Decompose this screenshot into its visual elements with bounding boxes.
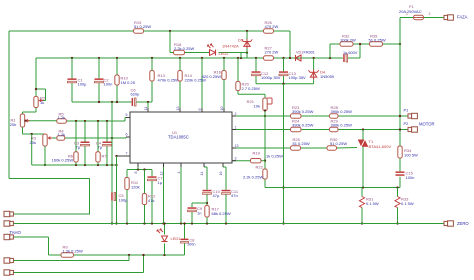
svg-text:390k 0.25W: 390k 0.25W: [292, 123, 314, 128]
resistor R19: [251, 151, 284, 163]
wire taho drop: [13, 237, 49, 255]
wire IC bottom hub y169.5: [127, 168, 152, 170]
resistor R23: [291, 105, 314, 118]
wire pin4 drop: [180, 163, 182, 224]
wire R12 leads: [144, 170, 146, 224]
svg-text:470 2W: 470 2W: [265, 24, 279, 29]
resistor R13: [150, 71, 179, 83]
wire R1 bottom to R3: [23, 127, 46, 135]
svg-text:TDA1085C: TDA1085C: [168, 135, 189, 140]
svg-text:20k: 20k: [10, 122, 16, 127]
wire R20 branch x238: [238, 58, 265, 98]
resistor R4: [57, 129, 65, 141]
capacitor C7: [148, 176, 164, 186]
svg-text:16: 16: [219, 172, 223, 176]
wire C7 leads: [151, 170, 153, 224]
svg-text:1: 1: [406, 12, 408, 16]
svg-text:100n: 100n: [406, 175, 415, 180]
svg-text:820 0.25W: 820 0.25W: [202, 74, 222, 79]
svg-text:7µ: 7µ: [75, 145, 80, 150]
wire gnd-a bus y102: [72, 101, 152, 103]
wire pin14 to C10: [204, 163, 208, 206]
wire terminal4 line: [13, 255, 129, 261]
wire analog gnd y165: [32, 164, 118, 166]
svg-text:TAHO: TAHO: [10, 230, 22, 235]
svg-text:LED2: LED2: [219, 51, 230, 56]
resistor R34: [398, 146, 418, 158]
wire R10 branch: [116, 58, 118, 102]
potentiometer R1: [10, 114, 30, 127]
resistor R26: [264, 20, 279, 33]
wire mains riser x400: [399, 18, 401, 172]
wire C5 left riser x112: [111, 102, 113, 225]
wire supply y44 line: [330, 43, 401, 58]
svg-text:51 0.25W: 51 0.25W: [369, 38, 386, 43]
label MOTOR: [419, 122, 435, 127]
svg-text:47k: 47k: [148, 198, 154, 203]
svg-text:5: 5: [126, 113, 128, 117]
terminal P1: [404, 108, 418, 119]
wire pin2 line y116: [232, 115, 408, 117]
resistor R30: [327, 137, 347, 150]
svg-text:6: 6: [126, 133, 128, 137]
wire C12 branch x256: [255, 58, 257, 84]
svg-text:470k 0.25W: 470k 0.25W: [158, 78, 180, 83]
svg-text:390k 0.25W: 390k 0.25W: [292, 109, 314, 114]
svg-text:11: 11: [144, 107, 148, 111]
capacitor C10: [203, 189, 221, 198]
wire pin11 stub: [147, 102, 149, 112]
svg-text:51 0.25W: 51 0.25W: [293, 141, 310, 146]
svg-text:7µ: 7µ: [97, 145, 102, 150]
svg-text:ZERO: ZERO: [457, 221, 469, 226]
wire R11 leads: [126, 170, 128, 224]
potentiometer R3: [30, 134, 53, 146]
wire R16 branch x224: [223, 58, 225, 112]
wire C5 right riser x116.5: [115, 156, 117, 225]
wire pin8 stub: [137, 163, 139, 170]
wire R22 drop: [264, 161, 266, 188]
wire supply gnd y83.8: [256, 83, 314, 85]
wire R1 wiper line y121: [26, 118, 131, 123]
wire R21 to pin2 net: [264, 111, 266, 162]
svg-text:VD1: VD1: [296, 51, 303, 55]
resistor R17: [205, 206, 231, 218]
svg-text:47µ: 47µ: [213, 193, 220, 198]
capacitor C8: [181, 239, 196, 247]
wire D4 branch: [313, 58, 315, 84]
capacitor C1: [68, 78, 88, 87]
capacitor C6: [131, 88, 141, 107]
terminal X1-4: [4, 258, 13, 263]
wire R2 bottom jog: [23, 108, 37, 115]
wire R17 lead: [206, 217, 208, 224]
resistor R32: [340, 34, 356, 47]
resistor R6: [52, 152, 79, 163]
svg-text:160k 0.25W: 160k 0.25W: [52, 158, 74, 163]
wire C9 hub y203: [192, 202, 207, 204]
capacitor C14: [343, 51, 358, 62]
svg-text:390k 0.25W: 390k 0.25W: [331, 109, 353, 114]
svg-text:0.1 5W: 0.1 5W: [401, 201, 414, 206]
svg-text:20k: 20k: [30, 140, 36, 145]
svg-text:MOTOR: MOTOR: [419, 122, 435, 127]
svg-text:100µ 35V: 100µ 35V: [289, 75, 307, 80]
terminal X1-2: [4, 221, 13, 226]
wire gnd riser x283: [282, 84, 284, 225]
svg-text:FAZA: FAZA: [457, 15, 468, 20]
svg-text:BTA41-600V: BTA41-600V: [369, 144, 392, 149]
wire R2 wiper loop: [35, 88, 46, 101]
svg-text:4: 4: [177, 172, 181, 174]
resistor R22: [243, 165, 267, 180]
svg-text:1.2k 0.25W: 1.2k 0.25W: [63, 249, 83, 254]
wire C4 branch: [106, 121, 108, 165]
wire D3 vertical: [246, 31, 248, 58]
svg-text:1N5059: 1N5059: [320, 74, 335, 79]
wire left vertical x9: [8, 31, 10, 179]
svg-text:1n: 1n: [197, 211, 201, 216]
svg-text:47n: 47n: [231, 193, 238, 198]
svg-text:100n: 100n: [187, 243, 195, 247]
potentiometer R21: [247, 98, 272, 112]
terminal FAZA: [444, 15, 468, 21]
resistor R35: [369, 34, 386, 47]
wire R18 chain: [170, 31, 248, 58]
resistor R14: [178, 71, 206, 83]
U1 pin numbers: [126, 107, 239, 176]
wire R7 branch: [97, 121, 99, 165]
wire pin9 riser x202: [201, 58, 203, 112]
wire R31 leads: [361, 188, 363, 225]
capacitor C13: [279, 71, 306, 80]
wire R14 branch x180: [179, 58, 181, 112]
svg-text:270 2W: 270 2W: [265, 50, 279, 55]
wire pin1 line y129.5: [232, 128, 408, 130]
capacitor C9: [188, 206, 203, 215]
wire pin16 to C11: [223, 163, 226, 224]
wire pin6 line y138: [65, 137, 130, 139]
resistor R24: [291, 119, 314, 132]
svg-text:13: 13: [235, 144, 239, 148]
triac T1: [358, 139, 391, 149]
svg-text:1µ 600V: 1µ 600V: [343, 51, 358, 55]
svg-text:1.2k: 1.2k: [58, 115, 66, 120]
svg-text:P2: P2: [404, 121, 410, 126]
svg-text:68k 0.25W: 68k 0.25W: [212, 211, 231, 216]
svg-text:100µ: 100µ: [78, 82, 88, 87]
svg-text:2: 2: [235, 112, 237, 116]
wire C1 branch: [71, 58, 73, 102]
svg-text:100k 2W: 100k 2W: [340, 38, 356, 43]
wire vcc bus y58: [36, 57, 360, 59]
capacitor C15: [396, 171, 415, 181]
svg-text:14: 14: [200, 172, 204, 176]
resistor R9: [61, 245, 83, 258]
wire R26 branch x290: [289, 31, 291, 58]
resistor R31: [359, 197, 378, 208]
svg-text:1M 0.25: 1M 0.25: [121, 80, 136, 85]
LED LED2: [208, 44, 230, 56]
wire terminal5 line: [13, 254, 145, 273]
wire pin3 line y160.7: [232, 160, 265, 162]
wire x36 down to R2: [35, 58, 37, 97]
svg-text:1k 0.25W: 1k 0.25W: [266, 153, 283, 158]
resistor R5: [57, 112, 67, 124]
svg-text:620p: 620p: [131, 92, 141, 97]
svg-text:LED1: LED1: [171, 236, 182, 241]
wire sense line y187.5: [265, 186, 400, 188]
wire fuse line y17.5: [400, 17, 444, 19]
capacitor C2: [95, 78, 113, 87]
capacitor C3: [74, 140, 90, 149]
svg-text:8: 8: [134, 172, 138, 174]
svg-text:51 0.25W: 51 0.25W: [330, 141, 347, 146]
resistor R27: [264, 46, 279, 61]
svg-text:R22: R22: [256, 165, 264, 170]
svg-text:1: 1: [235, 125, 237, 129]
node ground bus dots: [126, 222, 227, 224]
wire x31.7 gnd drop: [31, 134, 33, 165]
svg-text:D3: D3: [238, 38, 244, 43]
wire terminal1 loop: [9, 179, 90, 215]
svg-text:9: 9: [198, 109, 202, 111]
fuse F1: [399, 4, 431, 20]
resistor R12: [142, 194, 156, 205]
svg-text:1µ: 1µ: [158, 180, 163, 185]
wire R3 bottom: [44, 146, 46, 166]
wire C2 branch: [98, 58, 100, 102]
svg-text:10: 10: [220, 107, 224, 111]
svg-text:100 5W: 100 5W: [404, 153, 418, 158]
wire top bus y31: [9, 30, 290, 32]
wire triac MT1: [362, 147, 364, 188]
svg-text:51 0.25W: 51 0.25W: [134, 24, 151, 29]
capacitor C4: [96, 140, 112, 149]
svg-text:FR301: FR301: [304, 51, 315, 55]
wire ground bus y223.5: [13, 223, 444, 225]
wire C3 branch: [84, 121, 86, 165]
op-amp U1 TDA1085C box: [126, 108, 236, 167]
capacitor C11: [222, 189, 239, 198]
capacitor C5: [111, 193, 128, 203]
resistor R25: [291, 137, 310, 150]
svg-text:100µ: 100µ: [119, 198, 129, 203]
svg-text:7: 7: [126, 152, 128, 156]
diode D3 zener: [222, 38, 252, 49]
svg-text:120k: 120k: [131, 185, 140, 190]
wire C15 bottom: [399, 177, 401, 188]
svg-text:1N4742A: 1N4742A: [222, 44, 239, 49]
wire tacho line y255: [49, 254, 185, 256]
resistor R33: [395, 197, 414, 208]
svg-text:R19: R19: [253, 151, 261, 156]
potentiometer R2: [34, 96, 46, 108]
svg-text:R7: R7: [102, 154, 108, 159]
resistor R10: [115, 75, 136, 85]
diode D4 zener: [308, 70, 334, 80]
capacitor C12: [252, 71, 281, 80]
svg-text:100n: 100n: [104, 82, 113, 87]
wire pin12 drop: [163, 163, 165, 224]
node junctions top buses: [71, 30, 331, 59]
resistor R29: [330, 119, 353, 132]
wire pin13 gate line y148: [232, 147, 357, 150]
wire C9 leads: [191, 203, 193, 224]
wire C8 leads: [183, 222, 185, 255]
wire C13 branch x283: [283, 58, 285, 84]
resistor R20: [236, 82, 260, 92]
wire R13 branch x152: [151, 58, 153, 102]
wire R6 branch: [75, 121, 77, 165]
svg-text:1.2k: 1.2k: [58, 132, 66, 137]
svg-text:2.7 0.25W: 2.7 0.25W: [242, 86, 260, 91]
resistor R11: [125, 178, 140, 190]
diode VD1 FR301: [296, 51, 315, 62]
wire pin7 stub: [115, 155, 130, 157]
svg-text:1000µ 35V: 1000µ 35V: [261, 75, 281, 80]
wire R3 wiper to R4: [48, 137, 57, 139]
svg-text:10k: 10k: [254, 104, 260, 109]
svg-text:20A 250VAC: 20A 250VAC: [399, 9, 422, 14]
resistor R16: [202, 70, 227, 80]
svg-text:P1: P1: [404, 108, 410, 113]
resistor R28: [330, 105, 353, 118]
svg-text:3: 3: [235, 157, 237, 161]
svg-text:2.2k 0.25W: 2.2k 0.25W: [243, 175, 263, 180]
wire triac MT2: [362, 130, 364, 140]
terminal TAHO: [4, 230, 22, 240]
svg-text:0.1 5W: 0.1 5W: [366, 201, 379, 206]
terminal X1-5: [4, 270, 13, 275]
wire R33 leads: [396, 188, 398, 225]
wire LED1 leads: [163, 222, 165, 255]
U1 label: [168, 130, 189, 140]
svg-text:2.2k 0.25W: 2.2k 0.25W: [174, 46, 194, 51]
resistor R18: [174, 42, 195, 55]
resistor R15: [134, 20, 152, 33]
svg-text:1k: 1k: [40, 100, 44, 105]
terminal P2: [404, 121, 418, 132]
svg-text:390k 0.25W: 390k 0.25W: [331, 123, 353, 128]
LED LED1: [157, 229, 181, 242]
svg-text:13: 13: [176, 107, 180, 111]
terminal ZERO: [444, 221, 469, 226]
resistor R7: [96, 152, 108, 162]
svg-text:2: 2: [429, 12, 431, 16]
terminal X1-1: [4, 211, 13, 216]
